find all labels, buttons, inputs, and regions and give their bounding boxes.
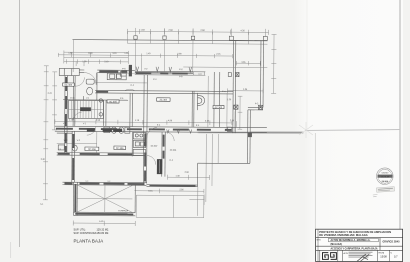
- svg-text:0C.306: 0C.306: [65, 85, 73, 87]
- svg-text:GRAFICO 20/45: GRAFICO 20/45: [383, 241, 401, 244]
- svg-text:0C.309: 0C.309: [116, 148, 124, 150]
- svg-text:PLANTA BAJA: PLANTA BAJA: [74, 238, 104, 243]
- svg-text:0C.308: 0C.308: [88, 149, 96, 151]
- svg-text:150.80 M2.: 150.80 M2.: [97, 232, 110, 235]
- svg-text:1/7: 1/7: [394, 255, 398, 259]
- svg-text:(MALAGA): (MALAGA): [331, 243, 343, 246]
- svg-text:0C.305: 0C.305: [109, 101, 117, 103]
- svg-text:SUP. CONSTRUIDA:: SUP. CONSTRUIDA:: [74, 232, 98, 235]
- svg-text:0C.307: 0C.307: [151, 146, 159, 148]
- svg-text:A.TE: A.TE: [344, 252, 349, 255]
- svg-text:ALTOS DE MARBELLA -MARBELLA-: ALTOS DE MARBELLA -MARBELLA-: [331, 239, 371, 242]
- svg-text:TERRAZA: TERRAZA: [118, 209, 128, 212]
- svg-text:0C.303: 0C.303: [215, 107, 223, 109]
- svg-text:2C.302: 2C.302: [160, 100, 168, 102]
- svg-text:12-06-09: 12-06-09: [381, 176, 391, 178]
- svg-text:2C.301: 2C.301: [170, 150, 178, 152]
- svg-text:SITIO: SITIO: [317, 239, 322, 241]
- svg-text:ACCESOS Y CARPINTERIA. PLANTA: ACCESOS Y CARPINTERIA. PLANTA BAJA: [331, 247, 378, 250]
- svg-text:COLEGIO: COLEGIO: [381, 173, 389, 175]
- svg-text:DE VIVIENDA UNIFAMILIAR. MALAG: DE VIVIENDA UNIFAMILIAR. MALAGA: [319, 233, 367, 237]
- svg-text:15/08: 15/08: [380, 255, 387, 259]
